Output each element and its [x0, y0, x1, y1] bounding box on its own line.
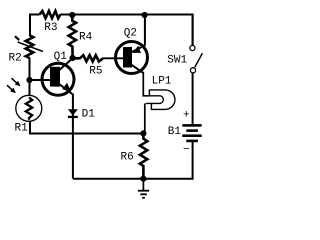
svg-text:R1: R1 [15, 123, 29, 135]
svg-text:D1: D1 [82, 108, 96, 120]
battery B1 plate 3 (long) [182, 134, 201, 137]
battery B1 plate 2 (short) [186, 129, 198, 132]
transistor Q1 circle [42, 63, 74, 95]
resistor R4 [69, 15, 76, 58]
wire: Q2 collector down to lamp [143, 72, 150, 96]
ground symbol [142, 179, 144, 190]
switch SW1 bottom contact [190, 68, 195, 73]
photoresistor R1 envelope [16, 95, 42, 121]
wire: Q2 base lead [103, 57, 125, 59]
switch SW1 lever [195, 53, 203, 67]
transistor Q1 emitter arrow [62, 83, 71, 92]
resistor R2 (variable) zigzag [26, 35, 34, 58]
node: junction top of Q2 emitter wire [142, 12, 148, 18]
transistor Q2 emitter lead (top) [132, 15, 145, 52]
wire: left vertical above R2 [29, 15, 31, 37]
svg-text:R2: R2 [9, 53, 22, 65]
transistor Q2 circle [116, 42, 148, 74]
lamp LP1 filament loop [146, 96, 163, 104]
battery B1 plate 4 (short -) [186, 140, 198, 143]
wire: lamp bottom lead [144, 103, 146, 131]
transistor Q1 emitter lead [59, 84, 73, 95]
wire: top rail left segment [30, 15, 40, 16]
resistor R2 arrow [18, 42, 43, 52]
lamp LP1 envelope [149, 90, 175, 110]
svg-text:Q2: Q2 [124, 27, 137, 39]
transistor Q1 base bar [50, 67, 60, 87]
svg-text:+: + [183, 109, 190, 121]
resistor R6 [140, 133, 147, 178]
svg-text:R6: R6 [121, 152, 134, 164]
transistor Q1 collector lead [59, 58, 73, 71]
wire: R1 top lead [29, 80, 31, 96]
svg-text:R4: R4 [79, 32, 93, 44]
diode D1 cathode bar [68, 116, 78, 118]
wire: left vertical below R2 [29, 58, 31, 81]
transistor Q1 base lead [30, 79, 52, 81]
svg-text:SW1: SW1 [167, 54, 187, 66]
switch SW1 wire from top rail [192, 15, 194, 46]
diode D1 triangle [68, 109, 78, 115]
node: junction bottom rail / R6 / ground [140, 176, 146, 182]
svg-text:−: − [183, 144, 190, 156]
transistor Q2 emitter arrow [133, 46, 141, 53]
switch SW1 top contact [190, 45, 195, 50]
wire: SW1 to battery [192, 73, 194, 124]
transistor Q2 collector lead (bottom) [132, 65, 144, 73]
resistor R5 [73, 55, 103, 61]
wire: top rail right segment [60, 15, 192, 46]
battery B1 plate 1 (long +) [182, 124, 201, 127]
resistor R3 [40, 11, 61, 18]
node: junction mid wire / lamp / R6 [140, 130, 146, 136]
node: junction top of R4 [69, 12, 75, 18]
svg-text:R3: R3 [44, 22, 57, 34]
svg-text:LP1: LP1 [152, 75, 172, 87]
light arrow 1 into R1 [12, 78, 19, 84]
light arrow 2 into R1 [7, 85, 14, 91]
svg-text:B1: B1 [168, 126, 182, 138]
wire: bottom rail [73, 142, 193, 179]
photoresistor R1 inner zigzag [26, 98, 32, 120]
svg-text:Q1: Q1 [54, 51, 68, 63]
transistor Q2 base bar [123, 47, 132, 68]
wire: R1 bottom lead and mid horizontal wire [30, 121, 143, 134]
diode D1 wire (Q1 emitter down to bottom rail) [72, 94, 74, 179]
node: junction Q1 base / R1 / R2 [26, 77, 32, 83]
svg-text:R5: R5 [89, 65, 102, 77]
node: junction R4/R5/Q1 collector [70, 55, 76, 61]
